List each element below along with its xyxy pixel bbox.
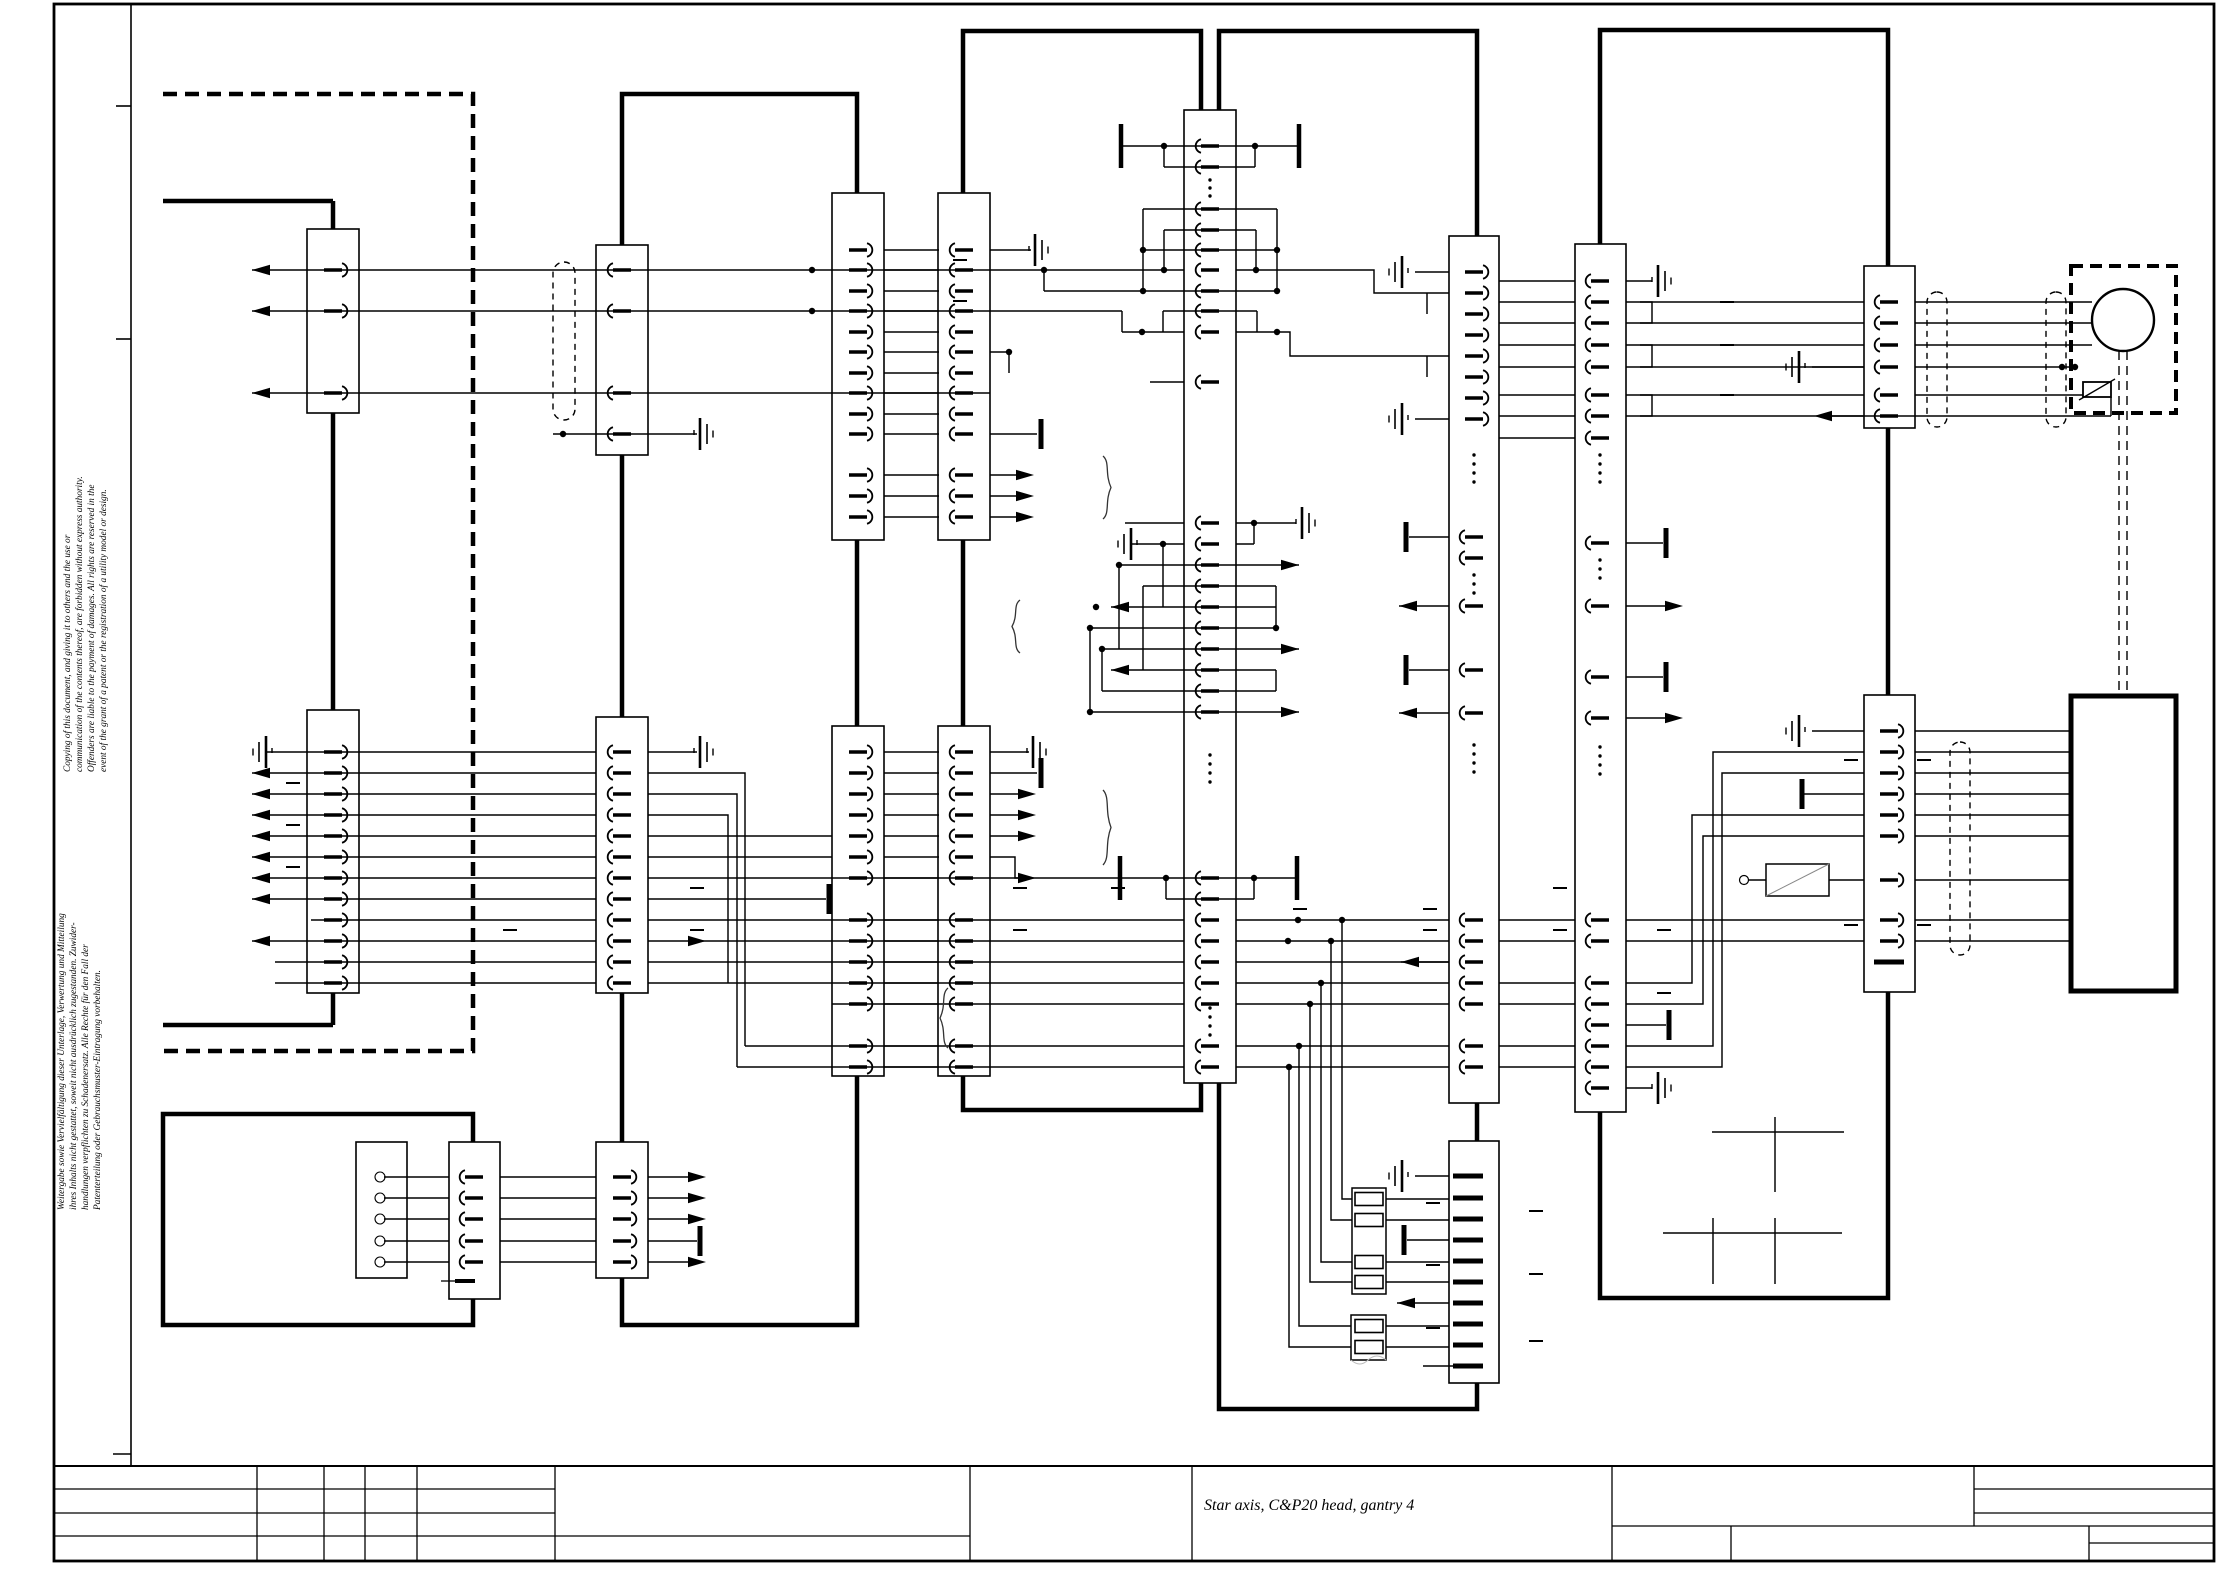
jumper chains right of C4b	[1043, 270, 1045, 291]
pins C6	[465, 1175, 483, 1178]
wires CR to C8 gap	[1499, 280, 1575, 282]
cabinet box B5	[1600, 30, 1888, 1298]
terminal small box with circles	[356, 1142, 407, 1278]
wire C7 bottom stub y1366	[1423, 1365, 1453, 1367]
cabinet box B2	[622, 94, 857, 1325]
pins C2	[613, 268, 631, 271]
wire C8 arrow y718	[1626, 717, 1677, 719]
stubs right of C4b rows 434-517	[990, 433, 1037, 435]
grounds CR	[1401, 256, 1404, 288]
wire link C4a-C4b bottom y1046	[884, 1045, 939, 1047]
svg-text:communication of the contents: communication of the contents thereof, a…	[74, 476, 85, 772]
pins C4a/C4b bottom	[849, 750, 867, 753]
title block	[54, 1465, 2214, 1467]
connector X1 (C1)	[307, 229, 359, 413]
shield capsule C9b	[1950, 742, 1970, 955]
tbar y773	[1039, 758, 1044, 788]
pins C9b	[1880, 729, 1898, 732]
wires right of C4b bottom	[990, 751, 1029, 753]
wires C8-C9a motor rows	[1626, 301, 1864, 303]
cluster mid symbols	[1301, 507, 1304, 539]
wire row y270 left (long)	[252, 269, 1184, 271]
pins C1	[324, 268, 342, 271]
pins C4a/C4b top	[849, 248, 867, 251]
minus wire labels	[286, 782, 300, 784]
margin divider	[130, 4, 132, 1466]
wire CR ground y272	[1415, 271, 1449, 273]
connector X9b	[1864, 695, 1915, 992]
bus bracket row 146	[1121, 145, 1299, 147]
motor circle	[2092, 289, 2154, 351]
wire link C4a-C4b y250	[884, 249, 939, 251]
ground left y752	[265, 736, 268, 768]
arrows right of C5	[688, 1172, 706, 1182]
wire link C4a-C4b bottom y962	[884, 961, 939, 963]
wire link C4a-C4b bottom y836	[884, 835, 939, 837]
shield capsules motor cable	[1927, 292, 1947, 427]
wire link C4a-C4b y332	[884, 331, 939, 333]
dashed enclosure D1	[163, 94, 473, 1051]
wire link C4a-C4b bottom y794	[884, 793, 939, 795]
tbar C9b y794	[1800, 779, 1805, 809]
C8 jumper hooks	[1640, 302, 1652, 323]
wire link C4a-C4b bottom y1004	[884, 1003, 939, 1005]
svg-text:handlungen verpflichten zu Sch: handlungen verpflichten zu Schadenersatz…	[80, 944, 91, 1210]
fold ticks	[116, 105, 131, 107]
wire link C4a-C4b bottom y1067	[884, 1066, 939, 1068]
cabinet box B4	[1219, 31, 1477, 1409]
wire link C4a-C4b bottom y941	[884, 940, 939, 942]
CR jumpers	[1426, 293, 1428, 314]
wires C5 right arrows	[648, 1176, 700, 1178]
wire link C4a-C4b y496	[884, 495, 939, 497]
crossover cluster wires (top)	[1143, 208, 1277, 210]
tbar right of C5 y1241	[698, 1226, 703, 1256]
wire link C4a-C4b bottom y983	[884, 982, 939, 984]
ground right C8 y1088	[1657, 1072, 1660, 1104]
arrows C8	[1665, 601, 1683, 611]
pins CR	[1465, 270, 1483, 273]
fuse feed verticals	[1342, 920, 1352, 1199]
wire tbar stub y794	[1804, 793, 1864, 795]
wire link C4a-C4b y352	[884, 351, 939, 353]
centre bracket 878	[1118, 856, 1123, 900]
connector X6 (C6)	[449, 1142, 500, 1299]
fuse bank group2	[1351, 1315, 1386, 1360]
wire C3 tbar right y899	[648, 898, 826, 900]
wire link C4a-C4b bottom y857	[884, 856, 939, 858]
connector X8	[1575, 244, 1626, 1112]
wires C9a to motor	[1915, 301, 2092, 303]
relay box with diagonal	[1766, 864, 1829, 896]
wires fuses to C7	[1386, 1198, 1449, 1200]
connector X3 (C3)	[596, 717, 648, 993]
pins C5b	[613, 1175, 631, 1178]
centre bracket row 878	[1120, 877, 1297, 879]
connector X1b (C1b)	[307, 710, 359, 993]
ground motor wire y367	[1798, 351, 1801, 383]
arrows C1 rows	[252, 265, 270, 275]
crossover cluster wires (mid)	[1125, 522, 1184, 524]
wire link C4a-C4b bottom y920	[884, 919, 939, 921]
wires C1b-C3 rows	[266, 751, 596, 753]
wire C5 tbar y1241	[648, 1240, 697, 1242]
connector X2 (C2)	[596, 245, 648, 455]
wire C3 ground right y752	[648, 751, 697, 753]
shield capsule C1-C2	[553, 262, 575, 420]
long rows mid band	[648, 877, 1120, 879]
gantry axis cross 2	[1663, 1232, 1842, 1234]
relay wire y880	[1748, 879, 1766, 881]
wire C7 ground y1176	[1415, 1175, 1449, 1177]
wire CR arrow y962	[1401, 961, 1449, 963]
junction dots misc	[809, 267, 815, 273]
connector X4a top	[832, 193, 884, 540]
tbars C8	[1664, 528, 1669, 558]
connector X7 (C7)	[1449, 1141, 1499, 1383]
wire C8 tbar y543	[1626, 542, 1663, 544]
wires C9b to device box	[1915, 730, 2071, 732]
thermistor	[2083, 382, 2111, 397]
dots ellipsis centre top	[1208, 178, 1211, 181]
ground C7 y1176	[1401, 1160, 1404, 1192]
pins centre connector	[1201, 144, 1219, 147]
wire ground stub y367 left	[1812, 366, 1864, 368]
arrow on row 941	[688, 936, 706, 946]
wire CR ground y419	[1415, 418, 1449, 420]
pins C3	[613, 750, 631, 753]
wires circles to C6 and C6 to C5	[384, 1176, 449, 1178]
wire link C4a-C4b y373	[884, 372, 939, 374]
wire C7 tbar y1240	[1407, 1239, 1449, 1241]
wire CR arrow y606	[1399, 605, 1449, 607]
wire stub CC 382	[1150, 381, 1184, 383]
pins C9a	[1880, 300, 1898, 303]
wire C8 ground y1088	[1626, 1087, 1652, 1089]
wire ground stub right of C4b y250	[990, 249, 1031, 251]
connector X4b bottom	[938, 726, 990, 1076]
connector X9a	[1864, 266, 1915, 428]
wire link C4a-C4b y517	[884, 516, 939, 518]
ground right of C2 y434	[699, 418, 702, 450]
wire link C4a-C4b y291	[884, 290, 939, 292]
wire thermistor y395	[1915, 394, 2083, 396]
svg-text:Patenterteilung oder Gebrauchs: Patenterteilung oder Gebrauchsmuster-Ein…	[93, 970, 103, 1211]
cabinet outline B1 (left C-shape)	[163, 199, 333, 204]
connector XC centre	[1184, 110, 1236, 1083]
bus endbars row146	[1119, 124, 1124, 168]
pins C8	[1591, 279, 1609, 282]
cabinet box B3	[963, 31, 1201, 1110]
svg-text:ihres Inhalts nicht gestattet,: ihres Inhalts nicht gestattet, soweit ni…	[69, 922, 79, 1210]
wire link C4a-C4b y434	[884, 433, 939, 435]
wire C8 arrow y606r	[1626, 605, 1677, 607]
wire link C4a-C4b y414	[884, 413, 939, 415]
wire C7 arrow y1303	[1397, 1302, 1449, 1304]
connector X4b top	[938, 193, 990, 540]
bus loop 146-167	[1163, 146, 1165, 167]
arrow C7 y1303	[1397, 1298, 1415, 1308]
svg-text:event of the grant of a patent: event of the grant of a patent or the re…	[98, 489, 109, 772]
arrows CR	[1399, 601, 1417, 611]
wire shield row y434	[553, 433, 648, 435]
staircase C8 to C9b	[1626, 815, 1864, 983]
svg-text:Offenders are liable to the pa: Offenders are liable to the payment of d…	[86, 485, 97, 772]
wire link C4a-C4b y475	[884, 474, 939, 476]
pins C7 dashes	[1453, 1174, 1483, 1179]
svg-text:Weitergabe sowie Vervielfältig: Weitergabe sowie Vervielfältigung dieser…	[56, 913, 67, 1210]
braces	[1103, 456, 1111, 519]
wire row y311 left (long, steps to 332)	[252, 310, 1122, 312]
pins C1b + arrows	[324, 750, 342, 753]
motor enclosure dashed	[2071, 266, 2176, 413]
tbars CR	[1404, 522, 1409, 552]
ground C9b y731	[1798, 715, 1801, 747]
arrows right of C4b	[1018, 789, 1036, 799]
wire row y393 left	[252, 392, 990, 394]
tbar C7 y1240	[1402, 1225, 1407, 1255]
ground y752 right of C4b	[1032, 736, 1035, 768]
motor cable dashed pair	[2118, 351, 2120, 696]
wire ground stub y731	[1812, 730, 1864, 732]
ground right C8 y281	[1657, 265, 1660, 297]
dots ellipsis centre low	[1208, 753, 1211, 756]
bottom dash pin C6	[455, 1279, 475, 1283]
cluster dots top	[1140, 247, 1146, 253]
svg-text:Star axis, C&P20 head, gantry: Star axis, C&P20 head, gantry 4	[1204, 1497, 1414, 1514]
fuse bank group1	[1352, 1188, 1386, 1294]
wire link C4a-C4b bottom y752	[884, 751, 939, 753]
gantry axis cross 1	[1712, 1131, 1844, 1133]
wire link C4a-C4b bottom y878	[884, 877, 939, 879]
wire CR tbar y537	[1409, 536, 1449, 538]
wire CR arrow y713	[1399, 712, 1449, 714]
cabinet box B6 (bottom left)	[163, 1114, 473, 1325]
dots on feed rows	[1339, 917, 1345, 923]
wire C8 tbar y1025	[1626, 1024, 1666, 1026]
wire link C4a-C4b y393	[884, 392, 939, 394]
wire link C4a-C4b bottom y815	[884, 814, 939, 816]
wire thermistor loop y416	[1831, 415, 2111, 417]
wire CR tbar y670	[1409, 669, 1449, 671]
ground right of C3 y752	[699, 736, 702, 768]
dots ellipsis C8	[1598, 453, 1601, 456]
connector X5 (C5)	[596, 1142, 648, 1278]
bottom dash pin C9b	[1874, 960, 1904, 965]
wire link C4a-C4b bottom y773	[884, 772, 939, 774]
wire C8 ground y281	[1626, 280, 1652, 282]
connector XR right	[1449, 236, 1499, 1103]
wires C3 right braid	[648, 773, 745, 1046]
tbar y899 right of C3	[827, 884, 832, 914]
dots ellipsis CR	[1472, 453, 1475, 456]
arrow motor y416	[1814, 411, 1832, 421]
svg-text:Copying of this document, and: Copying of this document, and giving it …	[62, 534, 73, 772]
wire C8 tbar y677	[1626, 676, 1663, 678]
ground right of C4b y250	[1034, 234, 1037, 266]
circles in terminal box	[375, 1172, 385, 1182]
device box right (drive unit)	[2071, 696, 2176, 991]
wire link C4a-C4b y270	[884, 269, 939, 271]
connector X4a bottom	[832, 726, 884, 1076]
tbar/arrows right of C4b top rows	[1039, 419, 1044, 449]
wire link C4a-C4b y311	[884, 310, 939, 312]
